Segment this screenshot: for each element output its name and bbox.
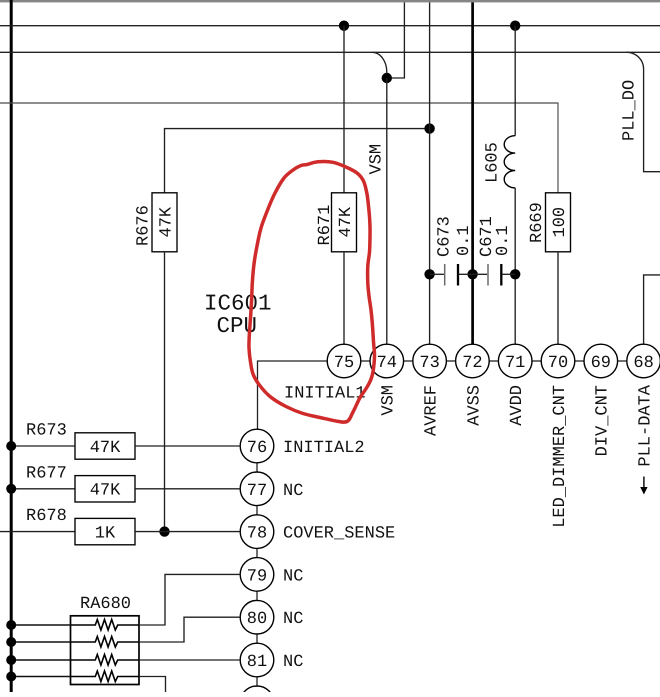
svg-text:NC: NC [283,482,303,501]
pin 68 circle [627,344,660,378]
svg-text:COVER_SENSE: COVER_SENSE [283,525,395,544]
pin 70 circle [541,344,575,378]
svg-text:AVDD: AVDD [508,385,527,426]
svg-text:1K: 1K [95,525,116,544]
svg-text:69: 69 [591,354,611,373]
svg-text:C673: C673 [436,216,455,257]
inductor L605 [504,136,515,188]
RA680 element 2 zigzag [71,637,140,648]
wire RA680-2 to pin 80 [139,617,240,642]
capacitor C671 right plate [500,264,502,286]
IC body segment pin73-pin72 [446,360,455,362]
wire AVREF vertical [429,2,431,344]
svg-text:76: 76 [247,439,267,458]
svg-text:81: 81 [247,653,267,672]
svg-text:RA680: RA680 [80,595,131,614]
IC body segment pin79-pin80 [256,591,258,600]
net line C to R669 (y=103) [0,103,558,193]
RA680 element 4 zigzag [71,671,140,682]
wire R677 left [13,488,75,490]
pin 75 circle [327,344,361,378]
wire VSM curved branch [372,52,387,78]
svg-text:LED_DIMMER_CNT: LED_DIMMER_CNT [551,385,570,528]
wire RA680 input 4 [13,676,71,678]
svg-text:PLL-DATA: PLL-DATA [637,384,656,466]
pin 73 circle [413,344,447,378]
svg-text:R671: R671 [316,205,335,246]
node A-R671 junction [339,21,349,31]
svg-text:NC: NC [283,610,303,629]
wire AVDD lower [514,188,516,344]
pin 72 circle [456,344,490,378]
RA680 element 1 zigzag [71,620,140,631]
resistor R673 [75,433,135,459]
svg-text:AVREF: AVREF [423,385,442,436]
wire RA680-3 to pin 81 [139,659,240,661]
wire RA680 input 3 [13,659,71,661]
node VSM junction [382,73,392,83]
wire RA680-1 to pin 79 [139,574,240,625]
svg-text:VSM: VSM [380,385,399,416]
resistor R669 [546,193,571,252]
IC body segment pin72-pin71 [489,360,498,362]
svg-text:100: 100 [551,207,570,238]
wire VSM down to pin 74 [386,78,388,344]
IC body segment pin78-pin79 [256,548,258,557]
signal direction arrow (PLL-DATA) [643,477,645,489]
node AVREF-C673 junction [424,269,434,279]
IC601 body corner [258,361,327,429]
node bus-R673 junction [6,441,16,451]
svg-text:47K: 47K [90,439,121,458]
wire C671 left stub [473,273,488,275]
pin 78 circle [240,515,274,549]
net line B (y=52.3) [0,51,660,53]
pin 69 circle [584,344,618,378]
pin 82 circle [240,686,274,697]
node bus-RA680 junction 2 [6,637,16,647]
node bus-RA680 junction 3 [6,655,16,665]
node bus-RA680 junction 1 [6,620,16,630]
wire R669 to pin 70 [557,252,559,344]
svg-text:47K: 47K [337,206,356,237]
resistor R671 [332,193,357,252]
pin 76 circle [240,429,274,463]
svg-text:0.1: 0.1 [455,225,474,256]
wire RA680-4 down to pin 82 [139,677,166,693]
net line A (y=25.7) [0,25,660,27]
wire C673 left stub [430,273,444,275]
node A-L605 junction [510,21,520,31]
IC body segment pin76-pin77 [256,463,258,472]
svg-text:INITIAL1: INITIAL1 [284,385,366,404]
svg-text:R678: R678 [26,507,67,526]
pin 80 circle [240,600,274,634]
svg-text:INITIAL2: INITIAL2 [283,439,365,458]
IC body segment pin69-pin68 [618,360,627,362]
svg-text:AVSS: AVSS [465,385,484,426]
wire AVDD upper [514,26,516,136]
red annotation circle [249,162,375,423]
resistor R676 [152,193,177,252]
pin 79 circle [240,558,274,592]
power bus (left vertical) [10,0,13,692]
pin 77 circle [240,472,274,506]
IC body segment pin75-pin74 [361,360,370,362]
svg-text:68: 68 [633,354,653,373]
svg-text:47K: 47K [157,206,176,237]
svg-text:NC: NC [283,653,303,672]
wire R677 right [135,488,240,490]
svg-text:R677: R677 [26,464,67,483]
wire RA680 input 1 [13,624,71,626]
IC body segment pin77-pin78 [256,506,258,515]
wire R673 right [135,445,240,447]
svg-text:73: 73 [419,354,439,373]
pin 74 circle [370,344,404,378]
RA680 element 3 zigzag [71,655,140,666]
svg-text:R676: R676 [135,205,154,246]
wire RA680 input 2 [13,641,71,643]
wire R678 right [135,531,240,533]
node R676-R678 junction [159,526,169,536]
svg-text:74: 74 [377,354,397,373]
svg-text:72: 72 [462,354,482,373]
node bus-R677 junction [6,484,16,494]
resistor network RA680 box [71,616,140,685]
svg-text:L605: L605 [484,142,503,183]
IC body segment pin74-pin73 [404,360,413,362]
page top border [0,0,660,2]
svg-text:PLL_DO: PLL_DO [621,80,640,141]
node AVSS-caps junction [467,269,477,279]
svg-text:NC: NC [283,567,303,586]
wire R671 to pin 75 [343,252,345,344]
wire C671 right stub [502,273,515,275]
svg-text:R669: R669 [528,202,547,243]
pin 71 circle [498,344,532,378]
capacitor C673 left plate [444,264,446,286]
wire VSM stub from top [387,2,405,78]
pin 81 circle [240,643,274,677]
svg-text:0.1: 0.1 [494,225,513,256]
IC body segment pin70-pin69 [575,360,584,362]
wire R671 top [343,26,345,193]
svg-text:80: 80 [247,610,267,629]
wire R676 top branch [165,129,430,193]
resistor R678 [75,518,135,544]
wire PLL-DATA from right edge [644,275,660,344]
svg-text:78: 78 [247,525,267,544]
wire PLL_DO branch [627,52,660,171]
wire R673 left [13,445,75,447]
svg-text:47K: 47K [90,482,121,501]
capacitor C671 left plate [487,264,489,286]
svg-text:77: 77 [247,482,267,501]
resistor R677 [75,476,135,502]
wire R678 left [0,531,75,533]
IC body segment pin71-pin70 [532,360,541,362]
wire C673 right stub [459,273,473,275]
wire AVSS (thick) [471,2,474,344]
svg-text:DIV_CNT: DIV_CNT [594,385,613,456]
IC body segment pin80-pin81 [256,634,258,643]
wire R676 bottom [164,252,166,532]
node bus-RA680 junction 4 [6,672,16,682]
node AVDD-C671 junction [510,269,520,279]
svg-text:70: 70 [548,354,568,373]
svg-text:75: 75 [334,354,354,373]
IC body segment pin81-pin82 [256,677,258,686]
svg-text:VSM: VSM [368,144,387,175]
capacitor C673 right plate [457,264,459,286]
svg-text:79: 79 [247,567,267,586]
svg-text:R673: R673 [26,422,67,441]
node R676-AVREF junction [424,123,434,133]
svg-text:71: 71 [505,354,525,373]
